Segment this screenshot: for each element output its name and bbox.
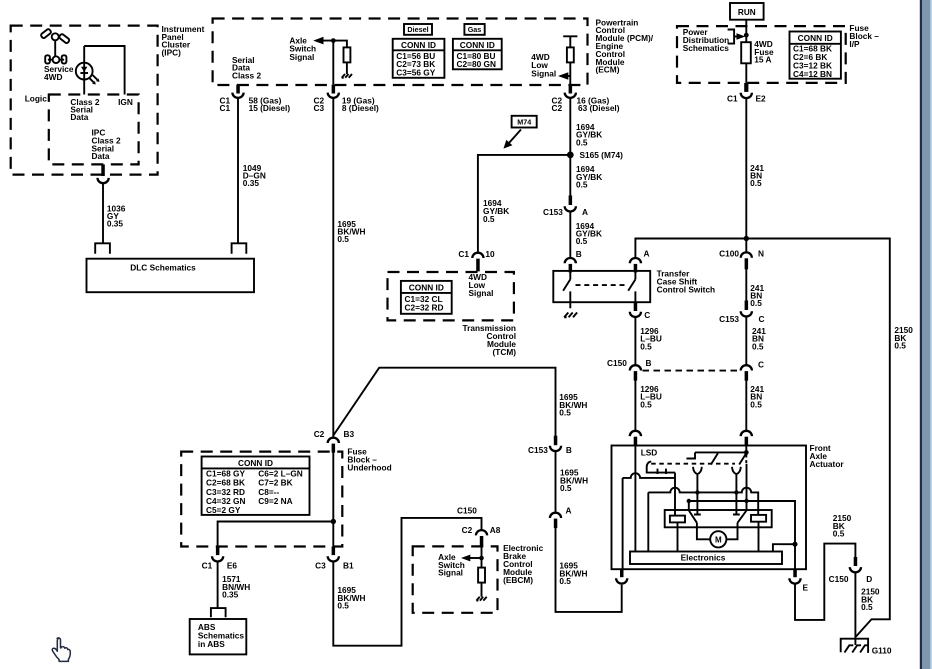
svg-text:(EBCM): (EBCM) bbox=[503, 575, 533, 585]
svg-text:C2=80 GN: C2=80 GN bbox=[457, 59, 496, 69]
svg-text:DLC Schematics: DLC Schematics bbox=[130, 263, 196, 273]
svg-text:CONN ID: CONN ID bbox=[460, 40, 495, 50]
svg-text:0.35: 0.35 bbox=[243, 178, 260, 188]
svg-text:10: 10 bbox=[485, 249, 495, 259]
svg-text:Control Switch: Control Switch bbox=[657, 284, 716, 294]
svg-text:(IPC): (IPC) bbox=[162, 47, 182, 57]
svg-text:0.5: 0.5 bbox=[861, 602, 873, 612]
svg-text:A8: A8 bbox=[490, 525, 501, 535]
svg-text:0.5: 0.5 bbox=[576, 180, 588, 190]
svg-text:0.5: 0.5 bbox=[483, 214, 495, 224]
svg-text:0.5: 0.5 bbox=[559, 408, 571, 418]
svg-text:C: C bbox=[758, 360, 764, 370]
svg-text:Electronics: Electronics bbox=[681, 552, 726, 562]
svg-text:I/P: I/P bbox=[849, 39, 860, 49]
svg-text:0.5: 0.5 bbox=[640, 399, 652, 409]
svg-text:C153: C153 bbox=[719, 314, 739, 324]
svg-text:M74: M74 bbox=[517, 118, 531, 127]
svg-text:0.5: 0.5 bbox=[640, 341, 652, 351]
svg-text:0.5: 0.5 bbox=[833, 529, 845, 539]
svg-text:Gas: Gas bbox=[468, 25, 482, 34]
svg-text:C9=2 NA: C9=2 NA bbox=[258, 496, 292, 506]
svg-text:Underhood: Underhood bbox=[347, 463, 391, 473]
svg-text:IGN: IGN bbox=[118, 97, 133, 107]
svg-text:0.5: 0.5 bbox=[752, 341, 764, 351]
svg-text:C: C bbox=[759, 314, 765, 324]
svg-text:B1: B1 bbox=[343, 560, 354, 570]
svg-text:A: A bbox=[644, 248, 650, 258]
svg-text:A: A bbox=[582, 207, 588, 217]
svg-text:C1: C1 bbox=[202, 560, 213, 570]
svg-text:C3: C3 bbox=[314, 103, 325, 113]
svg-text:C2: C2 bbox=[552, 103, 563, 113]
svg-text:Data: Data bbox=[70, 112, 88, 122]
svg-text:0.5: 0.5 bbox=[894, 341, 906, 351]
svg-text:CONN ID: CONN ID bbox=[409, 282, 444, 292]
svg-text:C3=56 GY: C3=56 GY bbox=[396, 67, 435, 77]
svg-text:B: B bbox=[566, 445, 572, 455]
svg-text:C5=2 GY: C5=2 GY bbox=[206, 505, 241, 515]
svg-text:C1: C1 bbox=[220, 103, 231, 113]
svg-text:0.5: 0.5 bbox=[337, 234, 349, 244]
svg-text:15 (Diesel): 15 (Diesel) bbox=[249, 103, 291, 113]
svg-text:G110: G110 bbox=[872, 645, 892, 655]
svg-text:CONN ID: CONN ID bbox=[401, 40, 436, 50]
svg-text:Logic: Logic bbox=[25, 93, 48, 103]
svg-text:0.5: 0.5 bbox=[750, 178, 762, 188]
svg-text:in ABS: in ABS bbox=[198, 639, 225, 649]
svg-text:CONN ID: CONN ID bbox=[238, 458, 273, 468]
svg-text:0.35: 0.35 bbox=[222, 590, 239, 600]
svg-text:Signal: Signal bbox=[531, 68, 556, 78]
svg-text:B: B bbox=[576, 249, 582, 259]
svg-text:0.5: 0.5 bbox=[576, 236, 588, 246]
svg-text:A: A bbox=[566, 506, 572, 516]
svg-text:C4=12 BN: C4=12 BN bbox=[793, 69, 832, 79]
svg-text:E2: E2 bbox=[756, 93, 767, 103]
svg-text:0.5: 0.5 bbox=[750, 298, 762, 308]
svg-text:4WD: 4WD bbox=[44, 72, 62, 82]
svg-text:Schematics: Schematics bbox=[683, 43, 730, 53]
svg-text:C153: C153 bbox=[528, 445, 548, 455]
svg-text:LSD: LSD bbox=[641, 447, 658, 457]
svg-text:Class 2: Class 2 bbox=[232, 70, 261, 80]
svg-text:C1: C1 bbox=[458, 249, 469, 259]
svg-text:0.5: 0.5 bbox=[576, 137, 588, 147]
svg-text:0.5: 0.5 bbox=[337, 601, 349, 611]
svg-text:15 A: 15 A bbox=[754, 54, 771, 64]
svg-text:C3: C3 bbox=[315, 560, 326, 570]
svg-text:E: E bbox=[803, 583, 809, 593]
svg-text:0.5: 0.5 bbox=[750, 399, 762, 409]
svg-text:0.5: 0.5 bbox=[560, 483, 572, 493]
svg-text:S165 (M74): S165 (M74) bbox=[580, 150, 624, 160]
svg-text:C2: C2 bbox=[462, 525, 473, 535]
svg-text:Signal: Signal bbox=[289, 52, 314, 62]
svg-text:C2: C2 bbox=[314, 429, 325, 439]
svg-text:8 (Diesel): 8 (Diesel) bbox=[342, 103, 379, 113]
svg-text:C150: C150 bbox=[829, 574, 849, 584]
svg-text:0.5: 0.5 bbox=[559, 576, 571, 586]
svg-text:E6: E6 bbox=[227, 560, 238, 570]
svg-text:0.35: 0.35 bbox=[107, 219, 124, 229]
svg-text:B: B bbox=[646, 358, 652, 368]
svg-text:N: N bbox=[758, 248, 764, 258]
svg-text:(ECM): (ECM) bbox=[596, 65, 620, 75]
svg-text:Diesel: Diesel bbox=[407, 25, 428, 34]
svg-text:M: M bbox=[715, 536, 722, 545]
svg-text:C2=32 RD: C2=32 RD bbox=[405, 303, 444, 313]
svg-text:(TCM): (TCM) bbox=[493, 347, 517, 357]
svg-text:Signal: Signal bbox=[469, 288, 494, 298]
svg-text:C150: C150 bbox=[607, 358, 627, 368]
svg-text:63 (Diesel): 63 (Diesel) bbox=[578, 103, 620, 113]
svg-text:C150: C150 bbox=[457, 506, 477, 516]
svg-text:Signal: Signal bbox=[438, 567, 463, 577]
svg-text:D: D bbox=[866, 574, 872, 584]
svg-text:C: C bbox=[644, 310, 650, 320]
svg-text:B3: B3 bbox=[344, 429, 355, 439]
svg-text:C1: C1 bbox=[727, 93, 738, 103]
svg-text:C153: C153 bbox=[543, 207, 563, 217]
svg-text:CONN ID: CONN ID bbox=[798, 33, 833, 43]
svg-text:Data: Data bbox=[92, 151, 110, 161]
svg-text:RUN: RUN bbox=[738, 8, 756, 17]
svg-text:C100: C100 bbox=[719, 248, 739, 258]
svg-text:Actuator: Actuator bbox=[810, 459, 845, 469]
